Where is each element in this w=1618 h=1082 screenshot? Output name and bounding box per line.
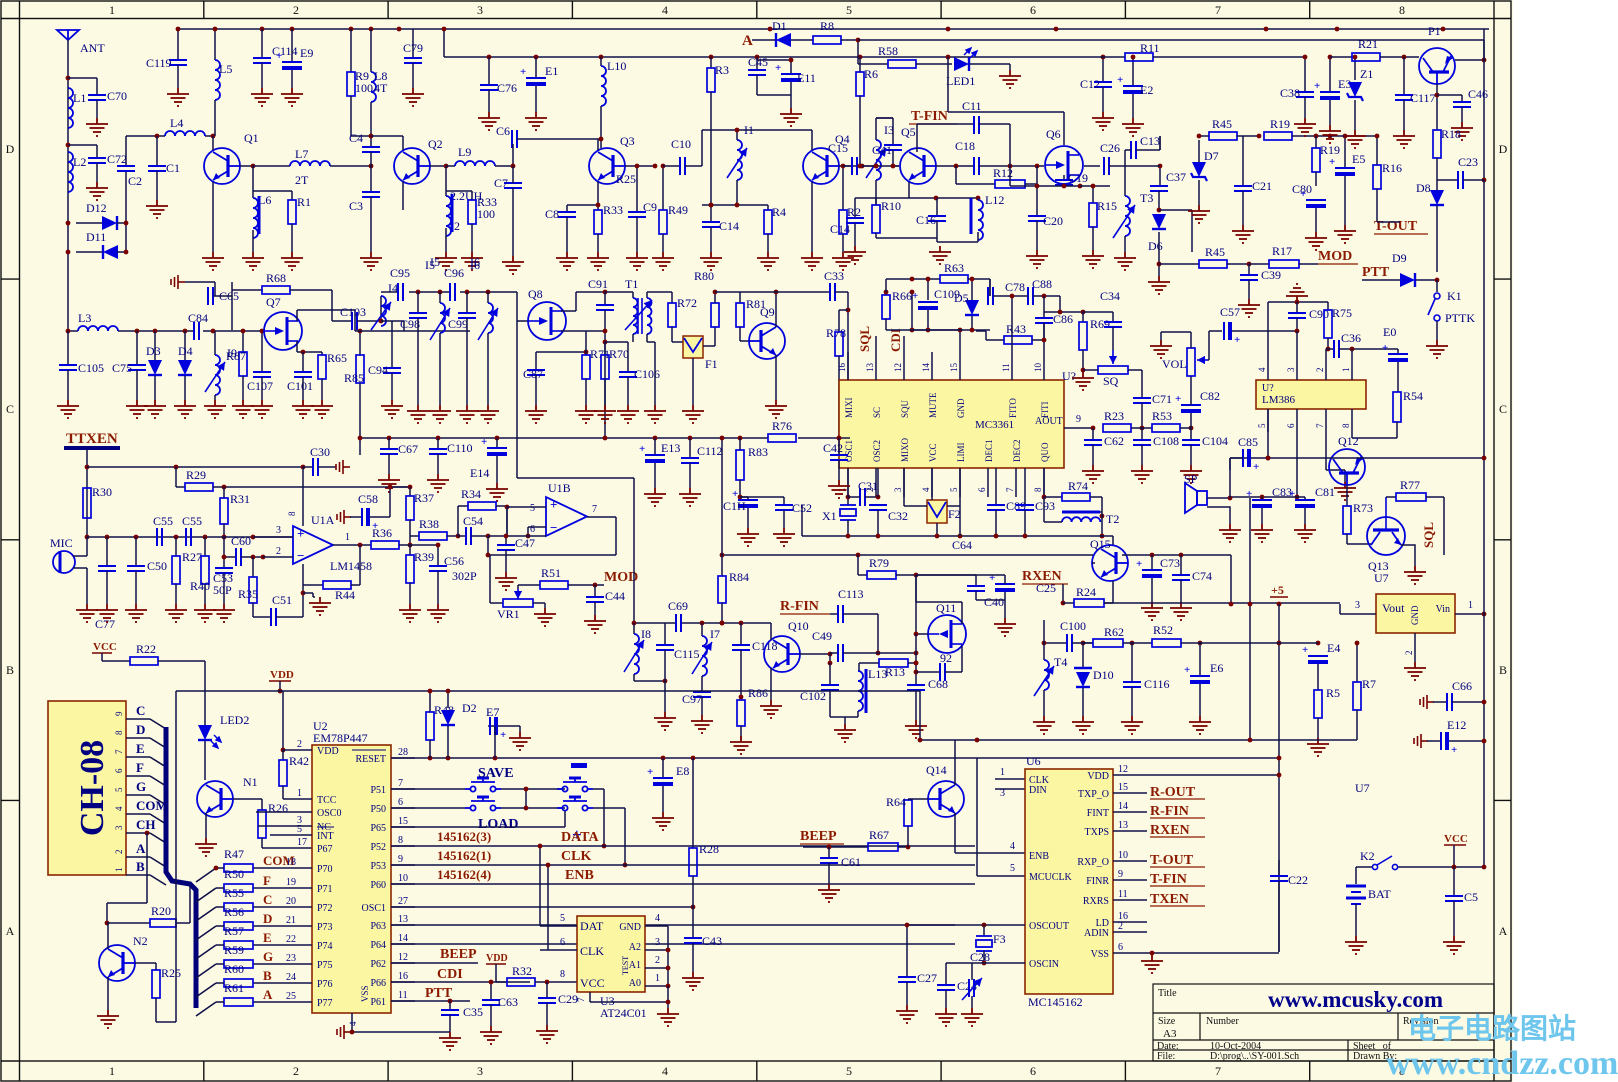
- push button LOAD: [465, 797, 501, 811]
- resistor: [659, 210, 667, 234]
- wire: [107, 922, 150, 924]
- wire: [1131, 427, 1152, 429]
- svg-text:MIXO: MIXO: [900, 438, 910, 462]
- wire: [767, 234, 769, 252]
- wire: [710, 227, 712, 252]
- wire: [117, 251, 126, 253]
- wire: [1351, 409, 1353, 432]
- svg-text:C108: C108: [1153, 434, 1179, 448]
- svg-text:6: 6: [1118, 942, 1123, 953]
- wire: [1092, 186, 1094, 203]
- junction: [1316, 641, 1321, 646]
- wire: [417, 318, 419, 405]
- FET: [264, 312, 302, 350]
- svg-text:11: 11: [1118, 889, 1128, 900]
- svg-text:E2: E2: [1140, 83, 1153, 97]
- wire: [1180, 580, 1182, 602]
- wire: [490, 602, 503, 604]
- wire: [636, 217, 638, 252]
- junction: [153, 329, 158, 334]
- resistor: [201, 556, 209, 584]
- inductor: [1044, 660, 1049, 690]
- wire: [1326, 469, 1345, 471]
- wire: [1267, 409, 1269, 458]
- svg-text:C103: C103: [340, 305, 366, 319]
- svg-text:6: 6: [977, 487, 987, 492]
- wire: [1351, 349, 1353, 355]
- junction: [846, 495, 851, 500]
- junction: [837, 436, 842, 441]
- inductor: [440, 303, 445, 333]
- junction: [914, 651, 919, 656]
- wire: [701, 676, 703, 692]
- capacitor: [512, 130, 517, 148]
- capacitor: [969, 979, 974, 997]
- svg-text:P74: P74: [317, 941, 333, 952]
- wire: [487, 333, 489, 405]
- svg-text:SAVE: SAVE: [478, 766, 514, 781]
- wire: [1267, 409, 1269, 432]
- svg-text:R42: R42: [289, 754, 309, 768]
- svg-text:DIN: DIN: [1029, 785, 1047, 796]
- wire: [646, 292, 648, 298]
- wire: [399, 544, 410, 546]
- capacitor: [838, 605, 843, 623]
- wire: [947, 505, 960, 507]
- wire: [175, 886, 177, 1022]
- wire: [1242, 136, 1244, 186]
- svg-text:P60: P60: [370, 880, 386, 891]
- svg-text:A: A: [263, 987, 273, 1002]
- wire: [126, 874, 150, 876]
- resistor: [1373, 165, 1381, 189]
- svg-text:I6: I6: [470, 258, 480, 272]
- svg-text:C115: C115: [674, 647, 700, 661]
- svg-text:7: 7: [1215, 1064, 1221, 1078]
- svg-text:C26: C26: [1100, 141, 1120, 155]
- capacitor: [1458, 171, 1463, 189]
- capacitor: [1067, 634, 1072, 652]
- svg-text:P63: P63: [370, 921, 386, 932]
- capacitor: [1131, 141, 1136, 159]
- ground: [495, 572, 517, 590]
- wire: [1036, 221, 1038, 250]
- ground: [1148, 276, 1170, 294]
- wire: [388, 438, 390, 449]
- svg-text:C45: C45: [748, 55, 768, 69]
- chassis ground: [1420, 695, 1434, 709]
- wire: [877, 510, 879, 536]
- svg-text:Q10: Q10: [788, 619, 809, 633]
- IC U3 AT24C01: [577, 916, 645, 992]
- wire: [126, 794, 150, 796]
- junction: [281, 748, 286, 753]
- wire: [370, 516, 390, 518]
- wire: [603, 789, 605, 846]
- junction: [755, 55, 760, 60]
- svg-text:T-FIN: T-FIN: [911, 109, 948, 124]
- wire: [908, 798, 928, 800]
- wire: [216, 906, 224, 908]
- wire: [1153, 56, 1305, 58]
- wire: [1082, 350, 1084, 370]
- wire: [437, 571, 439, 604]
- wire: [947, 57, 949, 112]
- wire: [1004, 592, 1006, 618]
- wire: [838, 356, 840, 438]
- svg-text:6: 6: [1030, 3, 1036, 17]
- junction: [1295, 495, 1300, 500]
- wire: [409, 487, 411, 496]
- junction: [970, 277, 975, 282]
- ground: [57, 400, 79, 418]
- wire: [714, 327, 716, 346]
- svg-text:BAT: BAT: [1368, 887, 1391, 901]
- junction: [709, 203, 714, 208]
- svg-text:R28: R28: [699, 842, 719, 856]
- wire: [391, 924, 955, 926]
- junction: [603, 290, 608, 295]
- wire: [1453, 867, 1455, 896]
- electrolytic capacitor: [1190, 676, 1210, 684]
- electrolytic capacitor: [995, 584, 1015, 592]
- wire: [457, 506, 459, 536]
- svg-text:OSC0: OSC0: [317, 808, 341, 819]
- svg-text:C58: C58: [358, 492, 378, 506]
- svg-text:C78: C78: [1005, 280, 1025, 294]
- junction: [408, 485, 413, 490]
- resistor: [288, 200, 296, 224]
- electrolytic capacitor: [738, 500, 758, 508]
- resistor: [1098, 366, 1128, 374]
- svg-text:+: +: [520, 66, 526, 78]
- wire: [654, 342, 656, 405]
- svg-text:8: 8: [1341, 423, 1351, 428]
- wire: [518, 584, 540, 586]
- resistor: [872, 205, 880, 233]
- ground: [587, 252, 609, 270]
- svg-text:C: C: [136, 703, 145, 718]
- wire: [261, 799, 263, 810]
- capacitor: [1084, 440, 1102, 445]
- resistor: [764, 210, 772, 234]
- junction: [358, 543, 363, 548]
- resistor: [711, 303, 719, 327]
- wire: [86, 568, 88, 604]
- ground: [994, 618, 1016, 636]
- chassis ground: [337, 510, 351, 524]
- svg-text:C40: C40: [984, 595, 1004, 609]
- wire: [1158, 191, 1160, 210]
- junction: [891, 164, 896, 169]
- svg-text:L9: L9: [458, 145, 471, 159]
- wire: [380, 296, 382, 321]
- junction: [487, 55, 492, 60]
- svg-text:U?: U?: [1062, 369, 1076, 383]
- wire: [645, 967, 668, 969]
- inductor: [290, 161, 330, 166]
- wire: [1036, 166, 1038, 184]
- wire: [1104, 602, 1113, 604]
- junction: [1277, 641, 1282, 646]
- op-amp: [546, 497, 587, 536]
- svg-text:G: G: [136, 779, 146, 794]
- wire: [253, 944, 312, 946]
- ground: [204, 400, 226, 418]
- wire: [1483, 29, 1485, 180]
- svg-text:R83: R83: [748, 445, 768, 459]
- svg-text:12: 12: [893, 363, 903, 372]
- svg-text:C96: C96: [444, 266, 464, 280]
- wire: [1151, 578, 1153, 602]
- wire: [1351, 432, 1353, 438]
- ground: [691, 715, 713, 733]
- junction: [632, 621, 637, 626]
- svg-text:T1: T1: [625, 277, 638, 291]
- svg-text:R50: R50: [224, 867, 244, 881]
- svg-text:9: 9: [114, 711, 124, 716]
- ground: [1238, 299, 1260, 317]
- svg-text:U1A: U1A: [311, 513, 335, 527]
- wire: [597, 234, 599, 252]
- svg-text:2: 2: [1315, 368, 1325, 373]
- wire: [915, 575, 917, 602]
- wire: [546, 1003, 548, 1025]
- ground: [818, 884, 840, 902]
- wire: [1315, 136, 1317, 148]
- svg-text:R79: R79: [869, 556, 889, 570]
- wire: [1483, 180, 1485, 867]
- svg-text:Q15: Q15: [1090, 537, 1111, 551]
- svg-text:C34: C34: [1100, 289, 1120, 303]
- wire: [1242, 191, 1244, 225]
- wire: [835, 291, 848, 293]
- svg-text:P76: P76: [317, 979, 333, 990]
- resistor: [279, 760, 287, 786]
- svg-text:C107: C107: [247, 379, 273, 393]
- svg-text:145162(3): 145162(3): [437, 829, 491, 844]
- svg-text:+: +: [1289, 488, 1295, 500]
- wire: [995, 788, 1025, 790]
- svg-text:19: 19: [286, 877, 296, 888]
- wire: [1043, 323, 1045, 340]
- svg-text:L7: L7: [295, 147, 308, 161]
- wire: [1063, 175, 1065, 180]
- junction: [1061, 601, 1066, 606]
- svg-text:E11: E11: [797, 71, 816, 85]
- junction: [970, 328, 975, 333]
- junction: [874, 164, 879, 169]
- ground: [195, 838, 217, 856]
- junction: [1482, 58, 1487, 63]
- svg-text:R52: R52: [1153, 623, 1173, 637]
- junction: [505, 505, 510, 510]
- wire: [633, 478, 635, 623]
- capacitor: [907, 685, 925, 690]
- ground: [456, 405, 478, 423]
- junction: [241, 329, 246, 334]
- svg-text:L3: L3: [78, 311, 91, 325]
- svg-text:R78: R78: [826, 326, 846, 340]
- wire: [995, 510, 997, 536]
- wire: [1180, 555, 1182, 575]
- diode: [1152, 214, 1166, 229]
- svg-text:10: 10: [1033, 363, 1043, 373]
- wire: [1092, 562, 1095, 564]
- capacitor: [253, 372, 271, 377]
- svg-text:1: 1: [655, 973, 660, 984]
- junction: [408, 543, 413, 548]
- svg-text:C49: C49: [812, 629, 832, 643]
- chassis ground: [171, 275, 185, 289]
- svg-text:R33: R33: [603, 203, 623, 217]
- wire: [1141, 403, 1143, 428]
- wire: [1296, 318, 1298, 331]
- ground: [1189, 716, 1211, 734]
- resistor: [224, 864, 253, 872]
- svg-text:8: 8: [287, 511, 297, 516]
- IC U6 MC145162: [1025, 769, 1113, 994]
- wire: [224, 556, 236, 558]
- electrolytic capacitor: [1441, 732, 1449, 750]
- wire: [391, 981, 415, 983]
- junction: [66, 143, 71, 148]
- svg-text:Q12: Q12: [1338, 434, 1359, 448]
- svg-text:TEST: TEST: [621, 956, 630, 975]
- capacitor: [558, 212, 576, 217]
- svg-text:CDI: CDI: [437, 967, 463, 982]
- wire: [370, 152, 372, 192]
- capacitor: [974, 116, 979, 134]
- inductor: [446, 196, 451, 236]
- wire: [1082, 688, 1084, 716]
- resistor: [356, 355, 364, 383]
- ground: [760, 700, 782, 718]
- wire: [256, 811, 312, 813]
- wire: [692, 358, 694, 405]
- resistor: [582, 355, 590, 379]
- wire: [175, 467, 177, 487]
- wire: [1229, 458, 1231, 470]
- resistor: [888, 60, 916, 68]
- junction: [856, 553, 861, 558]
- wire: [466, 318, 468, 405]
- wire: [1158, 232, 1160, 276]
- wire: [1124, 150, 1126, 166]
- svg-text:R74: R74: [1068, 479, 1088, 493]
- junction: [602, 844, 607, 849]
- wire: [847, 468, 849, 497]
- svg-text:D12: D12: [86, 201, 107, 215]
- wire: [253, 1001, 312, 1003]
- wire: [1160, 332, 1162, 340]
- wire: [417, 292, 419, 313]
- svg-text:Q8: Q8: [528, 287, 543, 301]
- wire: [1433, 701, 1447, 703]
- svg-text:ENB: ENB: [565, 868, 594, 883]
- wire: [403, 321, 405, 331]
- wire: [216, 925, 224, 927]
- junction: [301, 350, 306, 355]
- wire: [429, 740, 431, 758]
- svg-text:1: 1: [297, 788, 302, 799]
- wire: [961, 646, 963, 672]
- wire: [931, 352, 933, 380]
- junction: [251, 535, 256, 540]
- resistor: [406, 555, 414, 583]
- chassis ground: [1414, 734, 1428, 748]
- svg-text:A2: A2: [629, 942, 641, 953]
- ground: [1141, 602, 1163, 620]
- wire: [213, 295, 232, 297]
- resistor: [150, 919, 176, 927]
- wire: [1416, 279, 1437, 281]
- junction: [1091, 184, 1096, 189]
- wire: [857, 711, 859, 717]
- svg-text:Q3: Q3: [620, 134, 635, 148]
- wire: [1249, 498, 1251, 740]
- transistor: [589, 148, 625, 184]
- wire: [916, 574, 976, 576]
- ground: [435, 252, 457, 270]
- svg-text:CH-08: CH-08: [74, 740, 111, 836]
- wire: [646, 334, 648, 342]
- resistor: [224, 922, 253, 930]
- wire: [1190, 376, 1192, 405]
- svg-text:C8: C8: [545, 207, 559, 221]
- resistor: [594, 210, 602, 234]
- wire: [830, 613, 838, 615]
- ground: [961, 1008, 983, 1026]
- capacitor: [748, 70, 766, 75]
- wire: [633, 674, 635, 681]
- svg-text:L4: L4: [170, 116, 183, 130]
- wire: [332, 320, 352, 322]
- svg-text:F1: F1: [705, 357, 718, 371]
- resistor: [540, 581, 568, 589]
- svg-text:C105: C105: [78, 361, 104, 375]
- ground: [1122, 118, 1144, 136]
- svg-text:R57: R57: [224, 924, 244, 938]
- wire: [857, 40, 859, 64]
- wire: [979, 165, 1044, 167]
- wire: [647, 341, 655, 343]
- wire: [1159, 166, 1161, 186]
- wire: [662, 166, 664, 210]
- junction: [739, 621, 744, 626]
- junction: [436, 543, 441, 548]
- junction: [446, 756, 451, 761]
- wire: [803, 846, 868, 848]
- wire: [671, 327, 673, 342]
- svg-text:OSC1: OSC1: [362, 903, 386, 914]
- resistor: [940, 275, 968, 283]
- wire: [916, 601, 962, 603]
- svg-text:C117: C117: [1410, 91, 1436, 105]
- wire: [512, 166, 514, 183]
- svg-text:P67: P67: [317, 844, 333, 855]
- resistor: [323, 581, 351, 589]
- junction: [546, 863, 551, 868]
- junction: [774, 290, 779, 295]
- wire: [370, 136, 372, 147]
- resistor: [1264, 132, 1292, 140]
- svg-text:C46: C46: [1468, 87, 1488, 101]
- junction: [504, 534, 509, 539]
- capacitor: [450, 283, 455, 301]
- capacitor: [967, 586, 985, 591]
- wire: [977, 198, 979, 200]
